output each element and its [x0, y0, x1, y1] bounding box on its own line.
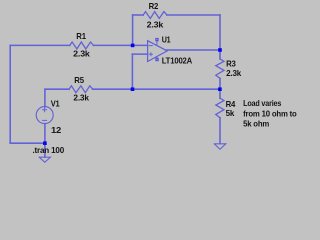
resistor R1 zigzag	[70, 42, 94, 49]
wire +input horizontal	[132, 53, 147, 55]
ground left	[39, 157, 50, 162]
wire node D to R4	[219, 89, 221, 98]
op-amp U1 bottom power pin marker	[155, 58, 158, 61]
wire node A to op-amp inverting input	[133, 44, 148, 46]
resistor R4 zigzag	[216, 98, 224, 118]
op-amp U1 minus input mark	[149, 45, 152, 47]
voltage source V1 circle	[36, 107, 53, 124]
wire V1 top lead vertical	[44, 89, 46, 107]
wire bottom-left horizontal to V1 ground node	[10, 142, 45, 144]
svg-text:2.3k: 2.3k	[147, 20, 164, 30]
svg-text:from 10 ohm to: from 10 ohm to	[243, 109, 297, 119]
wire R4 bottom to right ground	[219, 118, 221, 144]
wire V1 top to R5	[45, 88, 69, 90]
ground right	[214, 144, 226, 150]
voltage source V1 plus mark	[43, 108, 47, 112]
wire R2 right vertical down to output node	[219, 15, 221, 50]
svg-text:2.3k: 2.3k	[73, 92, 89, 102]
svg-text:2.3k: 2.3k	[73, 48, 90, 58]
svg-text:Load varies: Load varies	[243, 98, 281, 108]
svg-text:5k ohm: 5k ohm	[243, 119, 270, 129]
wire op-amp output to node B	[167, 49, 221, 51]
wire R1 right lead to node A	[94, 44, 133, 46]
svg-text:5k: 5k	[226, 108, 235, 118]
svg-text:U1: U1	[162, 35, 171, 45]
wire R2 right lead	[167, 14, 220, 16]
wire left vertical from R1 row down to bottom node	[9, 45, 11, 143]
node B junction dot (output/R2/R3)	[218, 48, 222, 52]
wire R3 bottom lead to node D	[219, 78, 221, 89]
wire R5 right lead to node C	[93, 88, 133, 90]
wire R2 left vertical riser	[132, 15, 134, 45]
svg-text:12: 12	[51, 125, 62, 135]
op-amp U1 triangle	[148, 41, 168, 62]
wire node B down to R3	[219, 50, 221, 59]
op-amp U1 top power pin marker	[155, 38, 158, 41]
wire +input vertical down to node C	[131, 54, 133, 89]
svg-text:R5: R5	[74, 75, 84, 85]
voltage source V1 minus mark	[43, 119, 47, 121]
node E junction dot (V1-/left wire/ground)	[43, 141, 47, 145]
wire V1 bottom lead vertical	[44, 124, 46, 144]
svg-text:R2: R2	[149, 1, 159, 11]
resistor R2 zigzag	[143, 12, 167, 19]
op-amp U1 bottom power pin stub	[156, 57, 158, 59]
node D junction dot (R3/R4/sense wire)	[218, 87, 222, 91]
svg-text:R1: R1	[76, 31, 86, 41]
resistor R3 zigzag	[216, 59, 224, 79]
node A junction dot (R1/R2/-input)	[131, 44, 135, 48]
svg-text:V1: V1	[51, 99, 60, 109]
svg-text:2.3k: 2.3k	[226, 68, 241, 78]
wire R1 left lead	[10, 44, 70, 46]
wire node C to node D (load sense)	[132, 88, 220, 90]
op-amp U1 top power pin stub	[156, 41, 158, 45]
resistor R5 zigzag	[69, 86, 93, 93]
op-amp U1 plus input mark	[149, 53, 152, 56]
svg-text:.tran 100: .tran 100	[33, 145, 65, 155]
node C junction dot (R5/+input/sense wire)	[131, 87, 135, 91]
wire R2 left lead	[133, 14, 144, 16]
wire bottom node to left ground	[44, 143, 46, 157]
svg-text:LT1002A: LT1002A	[162, 55, 192, 65]
